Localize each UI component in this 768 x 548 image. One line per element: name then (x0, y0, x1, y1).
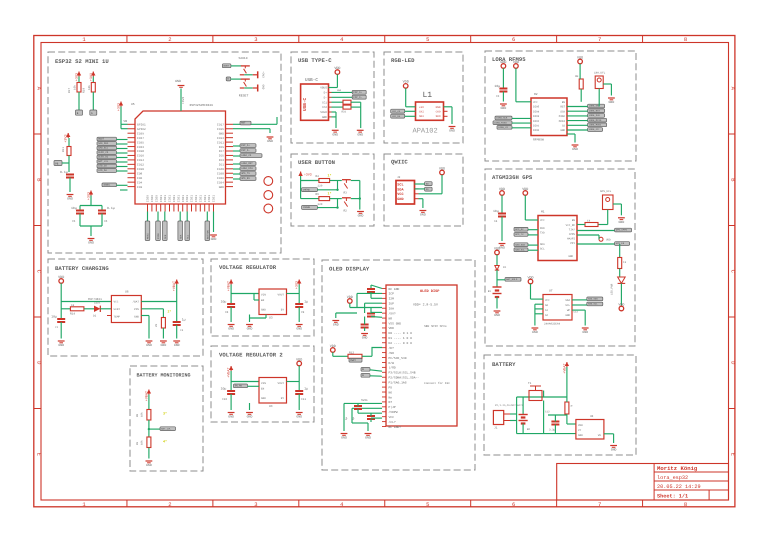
svg-text:Sheet: 1/1: Sheet: 1/1 (657, 494, 688, 500)
svg-text:10µ: 10µ (71, 206, 77, 210)
svg-text:IO14: IO14 (137, 159, 144, 162)
svg-text:0.1µ: 0.1µ (60, 170, 68, 174)
svg-text:B1: B1 (488, 290, 492, 293)
svg-text:C8: C8 (225, 311, 229, 314)
svg-text:PPG: PPG (134, 308, 139, 311)
svg-text:VCC: VCC (389, 416, 395, 419)
svg-text:ATGM336H GPS: ATGM336H GPS (492, 174, 533, 181)
svg-text:BATTERY: BATTERY (492, 361, 516, 368)
svg-text:1k: 1k (623, 261, 627, 264)
svg-text:BAT_LVL: BAT_LVL (161, 427, 171, 430)
svg-text:10k: 10k (87, 85, 91, 90)
svg-text:SER SPI# SPIs: SER SPI# SPIs (424, 325, 447, 328)
svg-text:GPIO1: GPIO1 (137, 124, 146, 127)
svg-text:QWIIC: QWIIC (391, 159, 408, 166)
svg-text:GPS_TX: GPS_TX (515, 233, 524, 236)
svg-text:IO21: IO21 (208, 195, 211, 202)
svg-text:1k: 1k (71, 303, 75, 307)
svg-text:IO21: IO21 (173, 195, 176, 202)
svg-text:C9: C9 (301, 311, 305, 314)
svg-text:SCL: SCL (186, 234, 189, 239)
svg-text:7: 7 (598, 36, 601, 43)
svg-text:LED_PWR: LED_PWR (611, 283, 614, 295)
svg-text:Moritz König: Moritz König (657, 465, 698, 472)
svg-text:6: 6 (512, 36, 515, 43)
svg-text:220: 220 (318, 203, 323, 206)
svg-text:U4: U4 (269, 405, 273, 408)
svg-text:GND: GND (174, 343, 180, 347)
svg-text:1MENU: 1MENU (303, 188, 311, 191)
svg-text:IO16: IO16 (137, 155, 144, 158)
svg-text:R3: R3 (344, 192, 348, 195)
svg-text:GND: GND (449, 129, 455, 133)
svg-text:CS: CS (562, 125, 566, 128)
svg-text:RESET: RESET (239, 94, 249, 98)
svg-text:LORA_MISO: LORA_MISO (494, 121, 507, 124)
svg-text:1PPS: 1PPS (569, 233, 576, 236)
svg-text:SCL: SCL (565, 304, 570, 307)
svg-text:IO21: IO21 (160, 195, 163, 202)
svg-text:DIO0: DIO0 (533, 129, 540, 132)
svg-text:B2: B2 (527, 428, 531, 431)
svg-text:2*: 2* (168, 310, 172, 314)
svg-text:CKI: CKI (419, 111, 424, 114)
svg-text:GND: GND (565, 314, 570, 317)
svg-text:DIO5: DIO5 (533, 106, 540, 109)
svg-text:GND: GND (500, 60, 506, 65)
svg-text:3*: 3* (163, 412, 167, 417)
svg-text:VOLTAGE REGULATOR 2: VOLTAGE REGULATOR 2 (219, 352, 283, 359)
svg-text:LORA_MOSI: LORA_MOSI (589, 124, 602, 127)
svg-text:GND: GND (146, 343, 152, 347)
svg-text:IO8: IO8 (137, 172, 142, 175)
svg-text:PWR?: PWR? (350, 359, 356, 362)
svg-text:GPS_RX: GPS_RX (515, 228, 524, 231)
svg-text:|/RD: |/RD (389, 366, 396, 370)
svg-text:GND: GND (532, 330, 538, 334)
svg-text:R10: R10 (83, 88, 86, 93)
svg-text:EN: EN (572, 219, 576, 222)
svg-text:BAT_LVL: BAT_LVL (98, 160, 109, 163)
svg-text:BOOT: BOOT (224, 65, 230, 68)
svg-text:GND: GND (333, 323, 339, 327)
svg-text:ESP_D+: ESP_D+ (241, 144, 250, 147)
svg-text:IO21: IO21 (164, 195, 167, 202)
svg-text:GND: GND (494, 313, 500, 317)
svg-text:GPS_TX: GPS_TX (241, 172, 250, 175)
svg-text:5: 5 (426, 36, 429, 43)
svg-text:IO21: IO21 (191, 195, 194, 202)
svg-text:NC GND: NC GND (389, 288, 400, 291)
svg-text:VOUT: VOUT (278, 382, 285, 385)
svg-text:/5V?: /5V? (389, 311, 396, 315)
svg-text:VCC: VCC (397, 192, 403, 197)
svg-text:GND: GND (211, 237, 217, 241)
svg-text:8: 8 (684, 36, 687, 43)
svg-text:VDD: VDD (334, 66, 340, 71)
svg-text:LORA_CS: LORA_CS (498, 126, 508, 129)
svg-text:1µ: 1µ (345, 416, 348, 420)
svg-text:10k: 10k (73, 85, 77, 90)
svg-text:IO20: IO20 (151, 195, 154, 202)
svg-text:VOUT: VOUT (278, 294, 285, 297)
svg-text:BY: BY (281, 309, 285, 312)
svg-text:C3: C3 (496, 95, 500, 98)
svg-text:2k: 2k (155, 323, 158, 327)
svg-text:ICP: ICP (389, 293, 395, 296)
svg-text:IO21: IO21 (186, 195, 189, 202)
svg-text:IO17: IO17 (217, 124, 224, 127)
svg-text:3: 3 (254, 36, 257, 43)
svg-text:R12: R12 (349, 351, 354, 354)
svg-text:EN: EN (562, 101, 566, 104)
svg-text:R4: R4 (316, 175, 320, 178)
svg-text:C13: C13 (574, 311, 579, 314)
svg-text:GND: GND (175, 79, 181, 83)
svg-text:VOLTAGE REGULATOR: VOLTAGE REGULATOR (219, 264, 277, 271)
svg-text:VBUS: VBUS (320, 87, 327, 90)
svg-text:M1: M1 (541, 211, 545, 214)
svg-text:IO18: IO18 (137, 150, 144, 153)
svg-text:U7: U7 (549, 290, 553, 293)
svg-text:GND: GND (365, 436, 371, 440)
svg-text:VDD: VDD (296, 357, 302, 362)
svg-text:LORA_SCK: LORA_SCK (589, 114, 601, 117)
svg-text:GPS_RX: GPS_RX (241, 177, 250, 180)
svg-text:MCP73831: MCP73831 (88, 298, 102, 301)
svg-text:IO21: IO21 (182, 195, 185, 202)
svg-text:IO4: IO4 (137, 181, 142, 184)
svg-text:R31: R31 (342, 110, 347, 113)
svg-text:GND: GND (560, 129, 565, 132)
svg-text:LORA_DIO: LORA_DIO (241, 167, 253, 170)
svg-text:LED_DA: LED_DA (98, 169, 107, 172)
svg-text:GND: GND (88, 241, 94, 245)
svg-text:USB-C: USB-C (305, 78, 318, 83)
svg-text:LORA RFM95: LORA RFM95 (492, 56, 526, 63)
svg-text:VDD: VDD (389, 327, 395, 330)
svg-text:VSS GND: VSS GND (389, 322, 402, 325)
svg-text:+3V3: +3V3 (261, 71, 264, 78)
svg-text:lora_esp32: lora_esp32 (657, 475, 688, 481)
svg-text:24AA025E64: 24AA025E64 (544, 323, 561, 326)
svg-text:A1: A1 (545, 309, 549, 312)
svg-text:RGB-LED: RGB-LED (391, 57, 415, 64)
svg-text:D+: D+ (324, 92, 328, 95)
svg-text:GND: GND (219, 132, 224, 135)
svg-text:LED_DA: LED_DA (392, 115, 401, 118)
svg-text:+3V3: +3V3 (64, 135, 69, 143)
svg-text:LORA_MISO: LORA_MISO (589, 119, 602, 122)
svg-text:SDO: SDO (436, 115, 441, 118)
svg-text:LED1: LED1 (94, 302, 101, 305)
svg-text:/VDPW: /VDPW (389, 410, 398, 414)
svg-text:10µ: 10µ (221, 300, 227, 304)
svg-text:GND: GND (228, 327, 234, 331)
svg-text:RST: RST (560, 106, 565, 109)
svg-text:SAO_SDA: SAO_SDA (588, 298, 598, 301)
svg-text:R?,1.25,1k/BP/6GP/G: R?,1.25,1k/BP/6GP/G (495, 404, 524, 407)
svg-text:VDD: VDD (499, 187, 505, 192)
svg-text:2: 2 (168, 36, 171, 43)
svg-text:EN: EN (261, 388, 265, 391)
svg-text:GND: GND (134, 315, 139, 318)
svg-text:10µ: 10µ (494, 84, 500, 88)
svg-text:VDD: VDD (330, 344, 336, 349)
svg-text:VT: VT (578, 429, 582, 432)
svg-text:GND: GND (501, 106, 507, 110)
svg-text:P5: P5 (389, 386, 393, 389)
svg-text:N6: N6 (389, 391, 393, 394)
svg-text:RFM95W: RFM95W (533, 139, 544, 142)
svg-text:USER BUTTON: USER BUTTON (298, 159, 335, 166)
svg-text:GND: GND (228, 415, 234, 419)
svg-text:R2: R2 (344, 210, 348, 213)
svg-text:/NO: /NO (389, 351, 395, 355)
svg-text:IO6: IO6 (137, 177, 142, 180)
svg-text:GND: GND (619, 220, 625, 224)
svg-text:GPS_UFL: GPS_UFL (600, 190, 612, 193)
svg-text:TJA?: TJA? (569, 229, 576, 232)
svg-text:10k: 10k (141, 440, 144, 445)
svg-text:MISO: MISO (157, 233, 160, 239)
svg-text:R8: R8 (136, 413, 139, 417)
svg-text:R14: R14 (70, 313, 75, 316)
svg-text:NR: NR (389, 317, 393, 320)
svg-text:GND: GND (261, 309, 266, 312)
svg-text:GND: GND (362, 336, 368, 340)
svg-text:1µ: 1µ (352, 416, 355, 420)
svg-text:IO3: IO3 (219, 159, 224, 162)
svg-text:MAXPI: MAXPI (567, 238, 575, 241)
svg-text:/E?: /E? (389, 346, 395, 350)
svg-text:GND: GND (420, 213, 426, 217)
svg-text:VDD: VDD (58, 275, 64, 280)
svg-text:VDD: VDD (403, 80, 409, 85)
svg-text:Connect for I2C: Connect for I2C (424, 381, 450, 385)
svg-text:CC1: CC1 (322, 101, 327, 104)
svg-text:VDD: VDD (439, 166, 445, 171)
svg-text:GND: GND (357, 132, 363, 136)
svg-text:NC GND?: NC GND? (389, 426, 402, 429)
svg-text:BAT_HOLD: BAT_HOLD (506, 278, 518, 281)
svg-text:IO12: IO12 (137, 164, 144, 167)
svg-text:GND: GND (267, 139, 273, 143)
svg-text:D1: D1 (503, 266, 507, 269)
svg-text:SAO_SDA: SAO_SDA (98, 142, 109, 145)
svg-text:1*: 1* (328, 191, 332, 196)
svg-text:SDA: SDA (540, 243, 545, 246)
svg-text:I2M: I2M (389, 298, 395, 301)
svg-text:D-: D- (324, 96, 328, 99)
svg-text:VCC: VCC (545, 299, 550, 302)
svg-text:OLED DISPLAY: OLED DISPLAY (329, 266, 370, 273)
svg-text:IO21: IO21 (199, 195, 202, 202)
svg-text:0Ω: 0Ω (575, 75, 579, 78)
svg-text:D0 ---- 0 1 0: D0 ---- 0 1 0 (389, 332, 413, 335)
svg-text:LED_CK: LED_CK (98, 165, 107, 168)
svg-text:IO35: IO35 (137, 141, 144, 144)
svg-text:S2010: S2010 (239, 57, 248, 60)
svg-text:+5V: +5V (419, 106, 424, 109)
svg-text:VDD: VDD (527, 275, 533, 280)
svg-text:MOSI: MOSI (147, 233, 150, 239)
svg-text:ESP_D-: ESP_D- (241, 149, 250, 152)
svg-text:C1: C1 (55, 326, 59, 329)
svg-text:GND: GND (261, 85, 264, 90)
svg-text:SAO_SCL: SAO_SCL (515, 248, 525, 251)
svg-text:WP: WP (567, 309, 571, 312)
svg-text:5: 5 (426, 501, 429, 508)
svg-text:IO20: IO20 (147, 195, 150, 202)
svg-text:GND: GND (67, 197, 73, 201)
svg-text:VIN: VIN (261, 294, 266, 297)
svg-text:MISO: MISO (559, 115, 566, 118)
svg-text:P|JP: P|JP (389, 405, 396, 409)
svg-text:IO40: IO40 (217, 168, 224, 171)
svg-text:VCC: VCC (114, 301, 119, 304)
svg-text:RST: RST (241, 122, 246, 125)
svg-text:U5: U5 (131, 103, 135, 106)
svg-text:GND: GND (247, 327, 253, 331)
svg-text:IO11: IO11 (217, 141, 224, 144)
svg-text:PB: PB (55, 162, 59, 165)
svg-text:10µ: 10µ (493, 209, 499, 213)
svg-text:IO21: IO21 (169, 195, 172, 202)
svg-text:RXD: RXD (540, 227, 545, 230)
svg-text:BY: BY (281, 397, 285, 400)
svg-text:GND: GND (296, 415, 302, 419)
svg-text:J2: J2 (397, 176, 401, 179)
svg-text:5INT: 5INT (114, 308, 121, 311)
svg-text:TEMP: TEMP (114, 315, 121, 318)
svg-text:IO21: IO21 (213, 195, 216, 202)
svg-text:T1: T1 (528, 382, 532, 385)
svg-text:TXD: TXD (540, 232, 545, 235)
svg-text:PP1: PP1 (570, 242, 575, 245)
svg-text:10µ: 10µ (221, 387, 227, 391)
svg-text:SDA: SDA (565, 299, 570, 302)
svg-text:VCC: VCC (540, 219, 545, 222)
svg-text:OLED_DC: OLED_DC (98, 156, 109, 159)
svg-text:L1: L1 (423, 91, 433, 100)
svg-text:VCC_RF: VCC_RF (566, 224, 576, 227)
svg-text:SHLD: SHLD (320, 111, 327, 114)
svg-text:3.3µ: 3.3µ (549, 429, 556, 432)
svg-text:3: 3 (254, 501, 257, 508)
svg-text:VDD: VDD (513, 60, 519, 65)
svg-text:C2: C2 (180, 329, 184, 332)
svg-text:CKO: CKO (436, 111, 441, 114)
svg-text:PC/SCE_S40: PC/SCE_S40 (389, 356, 407, 360)
svg-text:D2: D2 (93, 315, 97, 318)
svg-text:LED_CK: LED_CK (392, 110, 401, 113)
svg-text:C4: C4 (494, 220, 498, 223)
svg-text:1µ: 1µ (304, 300, 308, 304)
svg-text:7: 7 (598, 501, 601, 508)
svg-text:GND: GND (436, 106, 441, 109)
svg-text:IO10: IO10 (137, 168, 144, 171)
svg-text:BATTERY MONITORING: BATTERY MONITORING (137, 373, 191, 379)
svg-text:LORA_EN: LORA_EN (589, 105, 599, 108)
svg-text:DIO1: DIO1 (533, 125, 540, 128)
svg-text:R11: R11 (62, 147, 65, 152)
svg-text:GND: GND (161, 343, 167, 347)
svg-text:GND: GND (337, 89, 342, 92)
svg-text:IO20: IO20 (155, 195, 158, 202)
svg-text:BOOT: BOOT (98, 138, 104, 141)
svg-text:GND: GND (582, 330, 588, 334)
svg-text:SCK: SCK (164, 234, 167, 239)
svg-text:/BAT: /BAT (133, 301, 140, 304)
svg-text:1k: 1k (587, 220, 591, 223)
svg-text:GND: GND (58, 343, 64, 347)
svg-text:C12: C12 (545, 411, 550, 414)
svg-text:GND: GND (568, 255, 573, 258)
svg-text:C5: C5 (72, 220, 76, 223)
svg-text:GND: GND (578, 434, 583, 437)
svg-text:LORA_RST: LORA_RST (589, 109, 601, 112)
svg-text:U3: U3 (269, 317, 273, 320)
svg-text:SAO_SDA: SAO_SDA (515, 243, 525, 246)
svg-text:IUP: IUP (389, 303, 395, 306)
svg-text:0.1µ: 0.1µ (107, 206, 115, 210)
svg-text:DIO4: DIO4 (533, 110, 540, 113)
svg-text:N7: N7 (389, 401, 393, 404)
svg-text:D1 ---- 1 0 0: D1 ---- 1 0 0 (389, 337, 413, 340)
svg-text:GND: GND (146, 463, 152, 467)
svg-text:GND: GND (261, 397, 266, 400)
svg-text:ESP32 S2 MINI 1U: ESP32 S2 MINI 1U (55, 58, 109, 65)
svg-text:IO21: IO21 (177, 195, 180, 202)
svg-text:A2: A2 (545, 314, 549, 317)
svg-text:1µ: 1µ (304, 387, 308, 391)
svg-text:IO15: IO15 (217, 128, 224, 131)
svg-text:IO39: IO39 (137, 132, 144, 135)
svg-text:VDD: VDD (618, 302, 624, 307)
svg-text:OLED_CS: OLED_CS (98, 151, 109, 154)
svg-text:GND: GND (332, 132, 338, 136)
svg-text:ESP_D-: ESP_D- (353, 96, 362, 99)
svg-text:GND: GND (322, 116, 327, 119)
svg-text:ESP32S2MINI2U: ESP32S2MINI2U (190, 104, 214, 107)
svg-text:VDD= 2.8-5.5V: VDD= 2.8-5.5V (413, 303, 438, 307)
svg-text:IO21: IO21 (195, 195, 198, 202)
svg-text:J1: J1 (494, 427, 498, 430)
svg-text:VCC: VCC (533, 101, 538, 104)
svg-text:IO5: IO5 (219, 155, 224, 158)
svg-text:1DOWN: 1DOWN (303, 206, 311, 209)
svg-text:VB: VB (123, 120, 127, 123)
svg-text:IO7: IO7 (219, 150, 224, 153)
svg-text:USB TYPE-C: USB TYPE-C (298, 57, 332, 64)
svg-text:1*: 1* (328, 173, 332, 178)
svg-text:U6: U6 (125, 291, 129, 294)
svg-text:VDD: VDD (577, 55, 583, 60)
svg-text:R/W: R/W (389, 361, 395, 365)
svg-text:C10: C10 (222, 398, 227, 401)
svg-text:Ne: Ne (389, 396, 393, 399)
svg-text:VDD: VDD (494, 246, 500, 251)
svg-text:VDD: VDD (522, 187, 528, 192)
svg-text:1µ: 1µ (182, 318, 186, 322)
svg-text:MOSI: MOSI (559, 120, 566, 123)
svg-text:OLED DISP: OLED DISP (420, 289, 439, 294)
svg-text:10k: 10k (141, 412, 144, 417)
svg-text:GND: GND (397, 197, 403, 202)
svg-text:SDA: SDA (179, 234, 182, 239)
svg-text:GND: GND (572, 147, 578, 151)
